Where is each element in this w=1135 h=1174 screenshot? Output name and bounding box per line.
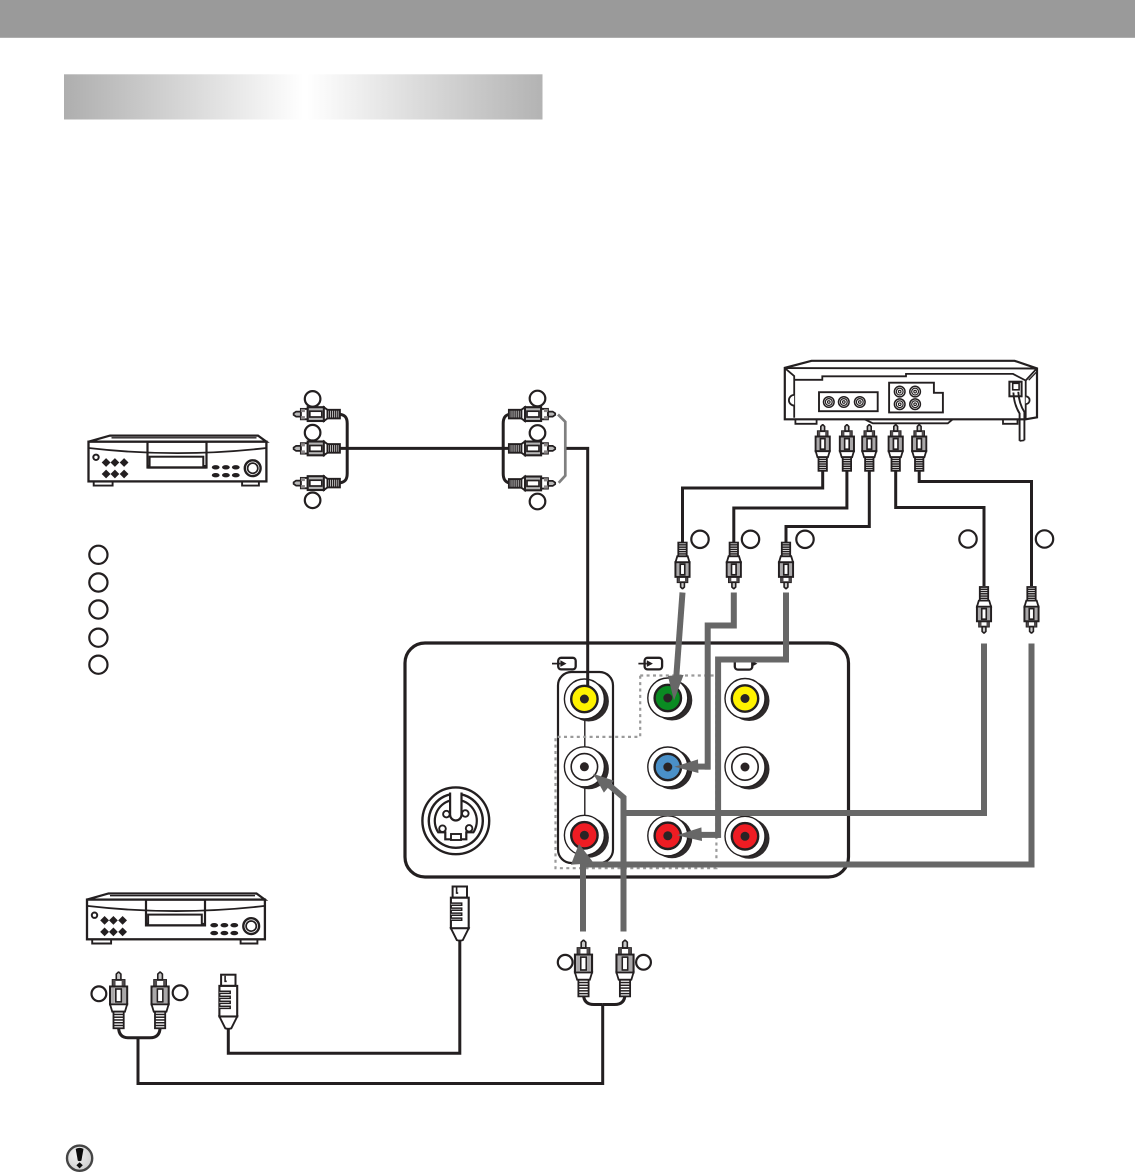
DVD player 2 (bottom left source device) (87, 894, 265, 944)
connection path: VCR audio L to AUDIO1 white (623, 644, 985, 814)
callout circle above plug R1 (530, 391, 546, 407)
VCR right foot (1003, 419, 1018, 424)
VCR component jack panel (889, 383, 943, 413)
VCR output RCA plug 4 (889, 425, 903, 471)
VCR right screw tab (1026, 396, 1030, 404)
jack VIDEO1 (yellow) (564, 679, 608, 722)
S-video cable (DVD2 to TV) (228, 941, 459, 1053)
step bullet circle 2 (89, 573, 107, 591)
connection path: VCR audio R to AUDIO1 red (583, 644, 1032, 865)
jack COMPONENT Pb (blue) (648, 747, 693, 790)
VCR cable 3 stair path (786, 470, 869, 545)
callout circle above plug L1 (305, 391, 321, 407)
callout circle beside plug down 4 (959, 530, 976, 547)
cable end into VIDEO1 jack (inside panel) (586, 644, 589, 687)
VCR output RCA plug 3 (862, 425, 876, 471)
input icon AV2 (under cable) (735, 658, 758, 670)
jack AUDIO1 R (red) (564, 815, 608, 858)
connection path to COMPONENT Pb (blue) (674, 593, 733, 774)
RCA plug R1 (right bundle, video) (509, 407, 555, 421)
VCR bottom tray edge (865, 419, 953, 423)
note exclamation icon (67, 1146, 92, 1171)
cable from bracket to VIDEO1 yellow jack (567, 448, 588, 689)
callout circle right of plug D (173, 985, 188, 1000)
RCA plug down 1 (to COMPONENT Y) (676, 543, 690, 589)
callout circle above plug L2 (305, 425, 321, 441)
S-VIDEO input jack (422, 787, 489, 854)
VCR body (rear view) (785, 361, 1037, 420)
callout circle beside plug down 1 (691, 531, 708, 548)
VCR output RCA plug 1 (816, 425, 830, 471)
RCA plug down 5 (audio R from VCR) (1025, 587, 1039, 633)
VCR composite jack 1 (824, 397, 835, 408)
callout circle beside plug down 3 (796, 531, 813, 548)
VCR component jack Pr (894, 399, 905, 410)
callout circle left of plug A (558, 955, 573, 970)
audio pair Y-cable (bottom center) (138, 994, 625, 1084)
RCA plug down 2 (to COMPONENT Pb) (727, 543, 741, 589)
VCR cable 4 stair path (896, 470, 984, 587)
VCR left foot (795, 419, 816, 424)
AV cable trunk (left bundle to right bundle) (338, 414, 511, 483)
VCR left screw tab (789, 395, 794, 406)
S-video plug into TV panel (451, 887, 469, 941)
input icon AV1 (552, 658, 576, 670)
step bullet circle 5 (89, 656, 107, 674)
jack AUDIO2 L (white) (725, 747, 770, 790)
connection path: VCR video to COMPONENT Y (green) (668, 593, 684, 701)
RCA plug R3 (right bundle, audio R) (509, 477, 555, 491)
connection path to COMPONENT Pr (red center) (677, 593, 786, 842)
RCA plug up D (DVD2 audio R) (152, 972, 169, 1028)
top page header bar (0, 0, 1135, 38)
jack AUDIO2 R (red) (725, 816, 770, 859)
AV1 internal connecting line (584, 700, 586, 835)
RCA plug up A (audio to AUDIO1 red) (575, 940, 592, 996)
VCR output RCA plug 2 (840, 425, 854, 471)
section title gradient band (64, 74, 543, 119)
RCA plug L3 (left bundle, audio R) (294, 476, 340, 490)
TV rear jack panel (405, 643, 849, 877)
grouping bracket (right bundle) (558, 415, 565, 483)
RCA plug up C (DVD2 audio L) (110, 972, 127, 1028)
VCR component jack 4 (910, 399, 921, 410)
callout circle beside plug down 2 (742, 531, 759, 548)
input icon COMPONENT (638, 658, 662, 670)
S-video plug at DVD2 (219, 975, 237, 1029)
connection path: bottom audio plug B to AUDIO1 white (593, 774, 623, 932)
callout circle above plug R2 (530, 425, 546, 441)
connection path: bottom audio plug A to AUDIO1 red (571, 844, 594, 932)
callout circle right of plug B (636, 955, 651, 970)
jack AUDIO1 L (white) (564, 747, 608, 790)
RCA plug L1 (left bundle, video) (294, 407, 340, 421)
AV1 input group outline (pill) (558, 672, 613, 863)
jack COMPONENT Y (green) (648, 678, 693, 721)
VCR composite jack 3 (855, 397, 866, 408)
VCR cable 2 stair path (734, 470, 847, 545)
DVD2 audio Y-cable (119, 1027, 161, 1038)
VCR cable 1 (video) stair path (683, 470, 823, 545)
step bullet circle 4 (89, 629, 107, 647)
callout circle below plug R3 (530, 494, 546, 510)
step bullet circle 1 (89, 546, 107, 564)
callout circle beside plug down 5 (1036, 530, 1053, 547)
RCA plug L2 (left bundle, audio L) (294, 442, 340, 456)
RCA plug up B (audio to AUDIO1 white) (616, 940, 633, 996)
VCR cable 5 stair path (919, 470, 1031, 587)
VCR power cord socket (1009, 382, 1021, 397)
step bullet circle 3 (89, 600, 107, 618)
jack VIDEO2 (yellow) (725, 679, 770, 722)
VCR power cord (1013, 392, 1024, 441)
VCR composite jack panel (819, 392, 878, 411)
callout circle below plug L3 (305, 493, 321, 509)
RCA plug down 3 (to COMPONENT Pr) (779, 543, 793, 589)
component input dashed group outline (556, 676, 717, 869)
RCA plug R2 (right bundle, audio L) (509, 442, 555, 456)
jack COMPONENT audio R (red) (648, 816, 693, 859)
RCA plug down 4 (audio L from VCR) (977, 587, 991, 633)
VCR component jack Pb (910, 386, 921, 397)
VCR component jack Y (894, 386, 905, 397)
VCR output RCA plug 5 (912, 425, 926, 471)
callout circle left of plug C (92, 986, 107, 1001)
DVD player 1 (top left source device) (89, 436, 267, 486)
VCR composite jack 2 (839, 397, 850, 408)
